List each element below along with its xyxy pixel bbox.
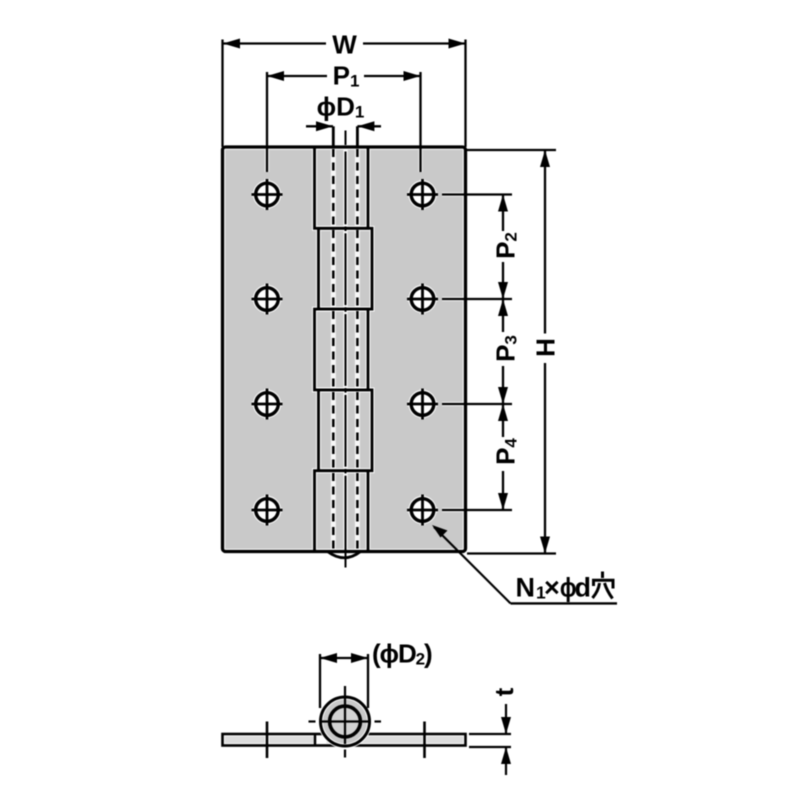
svg-text:H: H (531, 338, 561, 357)
svg-text:t: t (489, 687, 519, 696)
svg-text:W: W (332, 30, 357, 60)
svg-text:N1×d: N1×d (516, 573, 592, 603)
svg-text:P2: P2 (491, 232, 521, 259)
svg-text:P1: P1 (333, 61, 360, 91)
svg-text:ϕD1: ϕD1 (317, 92, 365, 122)
svg-text:P4: P4 (491, 438, 521, 465)
svg-text:(ϕD2): (ϕD2) (372, 639, 432, 669)
svg-text:P3: P3 (491, 335, 521, 362)
